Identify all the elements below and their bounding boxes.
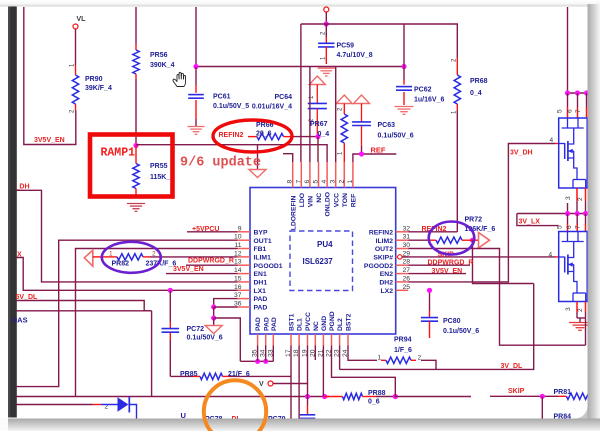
IC thermal pad dashed box: [290, 231, 353, 291]
svg-text:4: 4: [550, 137, 554, 144]
wire PR94 to 3V_DL: [421, 360, 436, 369]
wire Q1 pin6 drop: [577, 93, 579, 107]
pin 7 stub Q2: [585, 224, 587, 232]
gate lead: [559, 256, 565, 258]
pin 23 DL2 bottom stub: [339, 334, 341, 346]
wire Q2 pin7 drop: [585, 214, 587, 225]
drain segment: [568, 128, 574, 144]
wire PAD pins rail: [240, 360, 273, 362]
pin 6 stub Q1: [577, 107, 579, 118]
wire SKIP segment B: [490, 395, 558, 397]
svg-text:PC61: PC61: [213, 94, 231, 101]
svg-text:PC62: PC62: [414, 87, 432, 94]
svg-text:1/F_6: 1/F_6: [394, 347, 412, 354]
wire BST1 pin17 column: [290, 346, 292, 419]
wire Q2 pin5 drop: [567, 214, 569, 225]
wire pin7 riser: [300, 24, 302, 162]
ground under PC59: [318, 67, 335, 69]
wire PC72 down to PR85 row: [169, 340, 171, 376]
junction dot PAD34: [263, 359, 268, 364]
window right shadow: [588, 4, 600, 431]
svg-text:PU4: PU4: [317, 240, 333, 249]
svg-text:20_6: 20_6: [256, 131, 272, 138]
terminal circle top: [324, 7, 329, 12]
pin 29 SKIP# right stub: [396, 256, 409, 258]
svg-text:1: 1: [378, 355, 382, 362]
terminal circle VL bottom: [268, 381, 273, 386]
window bottom shadow: [8, 419, 600, 431]
pin 6 VIN top stub: [309, 162, 311, 188]
pin 37 PAD left stub: [238, 298, 251, 300]
svg-text:PR72: PR72: [465, 217, 483, 224]
wire pad jog to rail: [214, 318, 241, 361]
resistor PR88: [325, 396, 343, 398]
pin 16 LX1 left stub: [238, 289, 251, 291]
wire pin6 riser: [309, 67, 311, 163]
wire Q2 pin6 drop: [576, 214, 578, 225]
svg-text:3V_DL: 3V_DL: [501, 363, 524, 370]
svg-text:ILIM1: ILIM1: [254, 255, 272, 262]
wire PAD35 drop: [257, 346, 259, 362]
pin 3 stub Q2: [576, 302, 578, 313]
pin 1 REF top stub: [352, 162, 354, 188]
power arrow above PC64: [309, 76, 325, 85]
svg-text:PR68: PR68: [470, 78, 488, 85]
down arrow symbol near PC72: [205, 326, 222, 334]
svg-text:PC63: PC63: [378, 122, 396, 129]
annotation orange circle: [204, 380, 266, 431]
wire GND pin21 column: [322, 346, 324, 397]
resistor PR56: [135, 44, 137, 50]
wire corner y24 to pin7 riser: [301, 23, 326, 25]
wire lower bus: [17, 310, 152, 312]
svg-text:7: 7: [575, 225, 582, 229]
wire PAD34 drop: [265, 346, 267, 362]
svg-text:PAD: PAD: [255, 317, 262, 331]
pin 34 PAD bottom stub: [265, 334, 267, 346]
body arrow: [568, 264, 574, 266]
annotation red rectangle RAMP1: [90, 135, 173, 197]
pin 2 TON top stub: [343, 162, 345, 188]
pin 20 NC bottom stub: [314, 334, 316, 346]
svg-text:3V5V_EN: 3V5V_EN: [173, 266, 204, 273]
capacitor PC61: [195, 67, 197, 85]
svg-text:LX1: LX1: [254, 288, 267, 295]
power arrow above PC63: [354, 95, 370, 104]
svg-text:PR90: PR90: [85, 76, 103, 83]
svg-text:VCC: VCC: [333, 193, 340, 207]
pin 30 OUT2 right stub: [396, 248, 409, 250]
svg-text:ONLDO: ONLDO: [325, 192, 332, 217]
pin 5 stub Q2: [567, 224, 569, 232]
channel bar: [567, 255, 569, 275]
pin 8 LDOREFIN top stub: [292, 162, 294, 188]
wire Q2 source to ground: [576, 312, 578, 318]
wire Q1 pin7 drop: [586, 93, 588, 107]
source segment: [568, 151, 574, 158]
wire OUT2 rail corner: [585, 318, 587, 345]
wire 5V_DL bus: [17, 301, 152, 311]
wire SKIP drop bottom: [541, 396, 543, 418]
svg-text:LDOREFIN: LDOREFIN: [290, 195, 297, 230]
pin 25 LX2 right stub: [396, 289, 409, 291]
wire Q1 pin5 drop: [567, 93, 569, 107]
pin 31 ILIM2 right stub: [396, 239, 409, 241]
wire diode cathode: [129, 405, 136, 419]
wire LX rail: [517, 213, 588, 215]
window top edge shade: [0, 0, 600, 7]
svg-text:OUT1: OUT1: [254, 238, 272, 245]
wire PGOOD1 pin13: [186, 264, 238, 266]
svg-text:NC: NC: [313, 321, 320, 331]
channel bar: [567, 141, 569, 161]
drain segment: [568, 242, 574, 258]
resistor PR82: [93, 256, 103, 258]
junction dot PAD35: [255, 359, 260, 364]
wire bus drop to SKIP row: [151, 311, 153, 397]
junction dot LX b: [575, 211, 580, 216]
svg-text:TON: TON: [342, 193, 349, 207]
svg-text:PGOOD2: PGOOD2: [364, 263, 393, 270]
svg-text:REFIN2: REFIN2: [219, 132, 244, 139]
svg-text:PR56: PR56: [150, 52, 168, 59]
svg-text:PC72: PC72: [187, 326, 205, 333]
svg-text:EN1: EN1: [254, 271, 267, 278]
wire pin3 riser: [335, 67, 337, 163]
junction dot RAMP1: [133, 143, 138, 148]
svg-text:8: 8: [287, 180, 294, 184]
pin 28 PGOOD2 right stub: [396, 264, 409, 266]
pin 14 EN1 left stub: [238, 273, 251, 275]
wire PGOOD2 pin28: [408, 264, 470, 266]
op-amp U1 IC body PU4 ISL6237: [250, 188, 396, 335]
wire 3V_DL run: [340, 284, 534, 370]
svg-text:PR94: PR94: [394, 337, 412, 344]
wire PR72 to arrow: [470, 239, 479, 241]
wire PR68 down to REFIN2 pin32 net: [456, 110, 458, 232]
annotation purple ellipse PR82: [102, 242, 161, 273]
resistor PR67: [343, 104, 345, 115]
ground under PC61: [195, 119, 197, 127]
wire tap to refin arrow: [257, 145, 259, 170]
junction dot LX a: [565, 211, 570, 216]
svg-text:PAD: PAD: [254, 305, 268, 312]
inverting bubble SKIP# pin29: [398, 255, 402, 259]
annotation red ellipse REFIN2: [213, 120, 292, 152]
wire BST2 pin24 to PR94: [348, 346, 377, 361]
transistor body box: [559, 118, 588, 188]
svg-text:SKIP: SKIP: [508, 388, 525, 395]
source segment: [568, 265, 574, 272]
pin 11 FB1 left stub: [238, 248, 251, 250]
pin 10 OUT1 left stub: [238, 239, 251, 241]
wire Q1 pin1 short: [567, 203, 569, 214]
svg-text:3V_LX: 3V_LX: [519, 219, 541, 226]
svg-text:9/6 update: 9/6 update: [180, 156, 261, 171]
junction dot Q1 d3: [584, 90, 589, 95]
junction dot PR72: [470, 238, 475, 243]
capacitor PC72: [169, 290, 171, 322]
pin 27 EN2 right stub: [396, 273, 409, 275]
wire terminal to junction: [325, 12, 327, 24]
wire VCC rail horizontal: [196, 66, 404, 68]
wire SKIP run right: [395, 396, 471, 398]
svg-text:V: V: [259, 381, 264, 388]
svg-text:4.7u/10V_8: 4.7u/10V_8: [337, 52, 373, 59]
power arrow above PR67: [336, 95, 352, 104]
svg-text:3: 3: [330, 180, 337, 184]
ground under PC62: [395, 106, 414, 108]
svg-text:VL: VL: [77, 16, 87, 23]
junction dot Q1 d1: [565, 90, 570, 95]
pin 26 DH2 right stub: [396, 281, 409, 283]
svg-text:GND: GND: [321, 316, 328, 331]
svg-text:BST2: BST2: [346, 313, 353, 331]
wire VL tap to PVCC column: [273, 383, 308, 385]
svg-text:1u/16V_6: 1u/16V_6: [414, 97, 444, 104]
resistor PR72: [430, 239, 437, 241]
wire LX2 to PC80: [429, 290, 431, 310]
svg-text:DH1: DH1: [254, 280, 268, 287]
wire OUT1 pin10: [17, 240, 238, 386]
svg-text:25: 25: [403, 284, 411, 291]
wire FB1 pin11: [76, 249, 238, 397]
capacitor PC78 plate: [307, 405, 309, 415]
pin 35 PAD bottom stub: [257, 334, 259, 346]
pin 15 DH1 left stub: [238, 281, 251, 283]
wire DL1 pin18 column: [298, 346, 300, 419]
wire SKIP# pin29 to Q2 gate: [402, 256, 555, 258]
arrow connector PR82: [84, 250, 93, 266]
svg-text:DDPWRGD_R: DDPWRGD_R: [428, 260, 474, 267]
resistor PR68: [456, 58, 458, 75]
resistor PR81: [558, 395, 567, 397]
wire pin36 PAD: [214, 306, 238, 308]
junction dot pin5: [315, 134, 320, 139]
drain notch: [567, 118, 569, 128]
wire BYP pin9: [187, 231, 238, 233]
svg-text:7: 7: [575, 109, 582, 113]
svg-text:39K/F_4: 39K/F_4: [85, 85, 112, 92]
wire drain rail Q1: [568, 92, 589, 94]
svg-text:PR55: PR55: [150, 163, 168, 170]
wire PAD33 drop: [272, 346, 274, 362]
resistor PR90: [75, 65, 77, 75]
svg-text:NC: NC: [316, 193, 323, 203]
junction dot right rail: [401, 64, 406, 69]
capacitor PC64: [316, 85, 318, 104]
svg-text:REF: REF: [351, 194, 358, 208]
svg-text:PC80: PC80: [443, 318, 461, 325]
svg-text:390K_4: 390K_4: [150, 62, 175, 69]
svg-text:LDO: LDO: [299, 193, 306, 207]
source notch: [573, 292, 586, 294]
capacitor PC80: [429, 311, 431, 318]
junction dot PVCC skip: [305, 394, 310, 399]
junction dot LX2: [427, 288, 432, 293]
svg-text:4: 4: [549, 251, 553, 258]
svg-text:21/F_6: 21/F_6: [228, 371, 250, 378]
svg-text:2: 2: [577, 197, 584, 201]
wire PGND pin22 jog: [332, 346, 396, 397]
svg-text:BST1: BST1: [289, 313, 296, 331]
svg-text:PVCC: PVCC: [305, 312, 312, 331]
wire LX1 pin16: [17, 258, 238, 291]
junction dot refin arrow2: [211, 315, 216, 320]
svg-text:6: 6: [566, 225, 573, 229]
svg-text:6: 6: [567, 109, 574, 113]
wire rail top right to PR68: [326, 23, 404, 25]
svg-text:0_4: 0_4: [318, 131, 330, 138]
pin 17 BST1 bottom stub: [290, 334, 292, 346]
svg-text:DDPWRGD_R: DDPWRGD_R: [188, 257, 234, 264]
svg-text:PR82: PR82: [112, 260, 130, 267]
wire down to arrow2: [213, 318, 215, 326]
wire REF net: [353, 154, 396, 162]
svg-text:REFIN2: REFIN2: [369, 229, 393, 236]
svg-text:0_6: 0_6: [368, 399, 380, 406]
arrow connector PR72: [479, 233, 490, 249]
svg-text:BYP: BYP: [254, 229, 268, 236]
pin 13 PGOOD1 left stub: [238, 264, 251, 266]
svg-text:PAD: PAD: [254, 296, 268, 303]
wire PR90 to 3V5V_EN jog: [24, 7, 76, 145]
resistor PR55: [135, 146, 137, 164]
wire jog down to arrow: [213, 307, 215, 318]
junction dot PR88 right: [393, 394, 398, 399]
wire LX drop to 3V_LX: [517, 214, 559, 226]
pin 6 stub Q2: [576, 224, 578, 232]
wire VL to PR90: [75, 29, 77, 65]
left black sidebar: [8, 7, 17, 418]
svg-text:0.1u/50V_5: 0.1u/50V_5: [213, 103, 249, 110]
wire ground drop: [579, 318, 581, 322]
terminal circle VL: [73, 24, 78, 29]
svg-text:_DH: _DH: [15, 184, 30, 191]
svg-text:LX2: LX2: [381, 288, 394, 295]
mouse hand cursor: [173, 72, 186, 86]
svg-text:4: 4: [321, 180, 328, 184]
svg-text:0.01u/16V_4: 0.01u/16V_4: [252, 104, 292, 111]
svg-text:3V5V_EN: 3V5V_EN: [432, 268, 463, 275]
svg-text:5: 5: [557, 109, 564, 113]
resistor PR94: [381, 359, 386, 361]
ground under PR55: [127, 203, 145, 205]
capacitor PC63: [361, 104, 363, 122]
svg-text:2: 2: [577, 308, 584, 312]
svg-text:1: 1: [109, 250, 113, 257]
svg-text:9: 9: [238, 225, 242, 232]
svg-text:PR85: PR85: [180, 371, 198, 378]
wire pin5 riser below junction: [317, 137, 319, 162]
wire SKIP bus long: [17, 396, 330, 398]
pin 21 GND bottom stub: [322, 334, 324, 346]
svg-text:0.1u/50V_6: 0.1u/50V_6: [187, 335, 223, 342]
svg-text:ILIM2: ILIM2: [376, 238, 394, 245]
svg-text:PC64: PC64: [274, 94, 292, 101]
junction dot pin36 jog: [211, 304, 216, 309]
svg-text:PAD: PAD: [263, 317, 270, 331]
svg-text:0_4: 0_4: [470, 90, 482, 97]
wire EN1 pin14: [166, 273, 238, 275]
wire drain feed Q1 from top: [567, 7, 569, 93]
svg-text:PAD: PAD: [271, 317, 278, 331]
svg-text:1: 1: [347, 180, 354, 184]
svg-text:DL2: DL2: [337, 318, 344, 331]
svg-text:0.1u/50V_6: 0.1u/50V_6: [443, 328, 479, 335]
svg-text:3V_DH: 3V_DH: [510, 150, 533, 157]
pin 3 VCC top stub: [335, 162, 337, 188]
ground under Q2: [569, 322, 591, 324]
pin 18 DL1 bottom stub: [298, 334, 300, 346]
wire pin2 riser from PR67: [343, 143, 345, 188]
svg-text:2: 2: [338, 180, 345, 184]
wire feed from top at PC61 column: [195, 7, 197, 67]
wire pin8 LDOREFIN riser: [283, 154, 293, 162]
wire pin37 PAD jog: [214, 299, 238, 307]
diode D1: [101, 404, 118, 406]
svg-text:VIN: VIN: [308, 196, 315, 207]
wire PR56 to RAMP1 junction: [135, 79, 137, 145]
resistor PR85: [170, 375, 193, 377]
svg-text:3V5V_EN: 3V5V_EN: [34, 137, 65, 144]
svg-text:REF: REF: [371, 146, 386, 155]
pin 22 PGND bottom stub: [331, 334, 333, 346]
svg-text:0.1u/50V_6: 0.1u/50V_6: [378, 133, 414, 140]
wire rail to PC62: [403, 24, 405, 67]
wire DH2 pin26 to Q1 gate: [408, 144, 555, 282]
pin 4 ONLDO top stub: [326, 162, 328, 188]
svg-text:PGND: PGND: [329, 311, 336, 331]
gate lead: [559, 143, 565, 145]
svg-text:0AS: 0AS: [13, 316, 28, 325]
svg-text:PGOOD1: PGOOD1: [254, 263, 283, 270]
down arrow symbol refin: [249, 170, 266, 178]
svg-text:3: 3: [565, 196, 572, 200]
junction dot SKIP drop: [540, 394, 545, 399]
wire REFIN2 net from RAMP1 to ONLDO pin4: [136, 145, 327, 162]
pin 2 stub Q1: [585, 188, 587, 201]
wire ILIM2 pin31 to PR72: [408, 239, 429, 241]
svg-text:2: 2: [418, 355, 422, 362]
pin 7 stub Q1: [586, 107, 588, 118]
svg-text:2: 2: [152, 250, 156, 257]
rounded bottom-right window corner: [575, 406, 588, 419]
source notch: [573, 179, 586, 181]
junction dot left rail: [193, 64, 198, 69]
bottom left white margin: [0, 418, 8, 431]
svg-text:5: 5: [557, 225, 564, 229]
transistor body box: [559, 232, 588, 302]
pin 2 stub Q2: [585, 302, 587, 313]
svg-text:ISL6237: ISL6237: [303, 257, 334, 266]
wire PR66 to pin5 junction: [292, 136, 318, 138]
junction dot REF: [359, 151, 364, 156]
pin 32 REFIN2 right stub: [396, 231, 409, 233]
pin 19 PVCC bottom stub: [307, 334, 309, 346]
svg-text:OUT2: OUT2: [375, 246, 393, 253]
pin 7 LDO top stub: [300, 162, 302, 188]
wire DH1 pin15: [17, 190, 238, 282]
wire ILIM2 drop: [473, 240, 534, 283]
wire OUT2 pin30: [408, 249, 585, 346]
pin 5 NC top stub: [318, 162, 320, 188]
svg-text:3: 3: [565, 307, 572, 311]
svg-text:DH2: DH2: [379, 280, 393, 287]
wire top to PR56: [135, 7, 137, 44]
svg-text:6: 6: [304, 180, 311, 184]
svg-text:RAMP1: RAMP1: [101, 147, 136, 160]
